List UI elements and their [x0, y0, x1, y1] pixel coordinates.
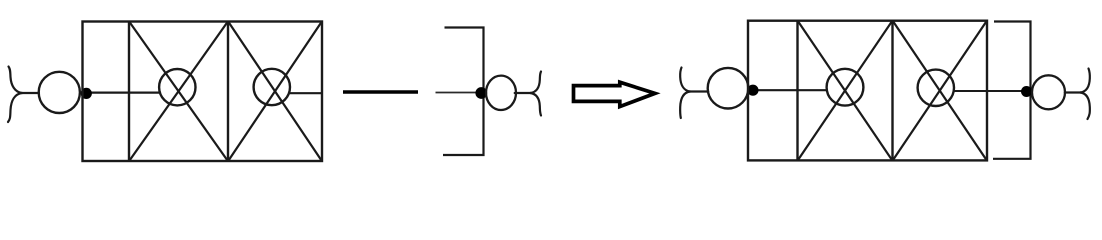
block arrow	[574, 82, 656, 106]
right diagram: cell 2 diagonal \	[893, 21, 987, 160]
right diagram: cell 2 diagonal /	[893, 21, 987, 160]
right diagram: wire from left junction dot to cell 1 circle	[752, 89, 828, 91]
right diagram: cell 2 circle	[918, 70, 954, 106]
right diagram: input node circle	[708, 68, 749, 109]
left diagram: wire from cell 2 circle to right edge	[290, 92, 322, 94]
right diagram: right bracket (top edge, right edge, bottom edge)	[993, 22, 1031, 159]
left diagram: cell 1 diagonal /	[130, 22, 228, 161]
middle diagram: wire stub into bracket	[436, 92, 484, 94]
right diagram: output node circle	[1032, 75, 1065, 109]
left diagram: input node circle	[39, 72, 80, 113]
left diagram: cell 2 diagonal /	[229, 22, 322, 161]
right diagram: left junction dot	[747, 85, 758, 96]
left diagram: cell 1 diagonal \	[130, 22, 228, 161]
middle diagram: output node circle	[486, 76, 516, 110]
right diagram: divider 2	[891, 21, 893, 161]
left diagram: outer rectangle	[83, 22, 323, 162]
right diagram: divider 1	[796, 21, 798, 161]
left diagram: cell 2 diagonal \	[229, 22, 322, 161]
right diagram: cell 1 diagonal /	[798, 21, 892, 160]
right diagram: right junction dot	[1021, 86, 1032, 97]
right diagram: outer rectangle	[748, 21, 987, 161]
right diagram: right leg fork	[1065, 69, 1090, 120]
right diagram: cell 1 diagonal \	[798, 21, 892, 160]
left diagram: cell 1 circle	[159, 69, 195, 105]
left diagram: left leg fork	[8, 67, 39, 123]
right diagram: cell 1 circle	[827, 69, 864, 106]
right diagram: left leg fork	[680, 68, 708, 119]
middle diagram: bracket (top edge, right edge, bottom edge)	[443, 28, 484, 156]
left diagram: wire from junction dot to first inner circle	[86, 91, 161, 93]
left diagram: junction dot	[81, 88, 92, 99]
left diagram: cell 2 circle	[254, 69, 290, 105]
middle diagram: right leg fork	[515, 72, 541, 116]
left diagram: divider 1	[128, 22, 130, 162]
middle diagram: junction dot	[475, 87, 487, 99]
right diagram: wire from cell 2 circle through right edge to right junction dot	[954, 90, 1023, 92]
left diagram: divider 2	[227, 22, 229, 162]
minus sign	[343, 90, 418, 93]
